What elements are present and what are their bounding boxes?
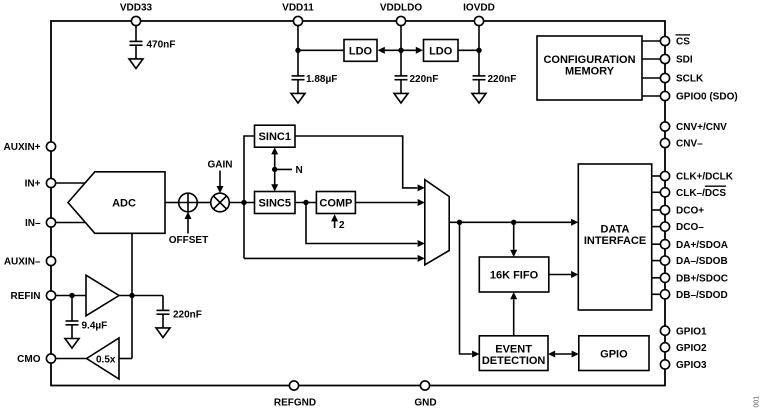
svg-text:OFFSET: OFFSET	[169, 235, 208, 246]
svg-text:MEMORY: MEMORY	[565, 66, 615, 78]
svg-text:CLK+/DCLK: CLK+/DCLK	[676, 172, 734, 183]
svg-text:CMO: CMO	[17, 354, 41, 365]
svg-text:220nF: 220nF	[410, 74, 439, 85]
svg-text:0.5x: 0.5x	[96, 354, 116, 365]
svg-text:SINC1: SINC1	[259, 131, 291, 143]
svg-text:CLK–/DCS: CLK–/DCS	[676, 188, 726, 199]
svg-text:001: 001	[754, 396, 760, 408]
svg-text:REFGND: REFGND	[274, 397, 316, 408]
svg-text:DCO–: DCO–	[676, 222, 704, 233]
svg-text:IOVDD: IOVDD	[463, 3, 495, 14]
svg-text:DA+/SDOA: DA+/SDOA	[676, 240, 728, 251]
svg-text:GPIO0 (SDO): GPIO0 (SDO)	[676, 92, 738, 103]
svg-text:CS: CS	[676, 37, 690, 48]
svg-text:CNV–: CNV–	[676, 139, 703, 150]
svg-text:CONFIGURATION: CONFIGURATION	[543, 54, 635, 66]
svg-text:LDO: LDO	[349, 45, 373, 57]
svg-text:GPIO1: GPIO1	[676, 326, 707, 337]
svg-text:AUXIN+: AUXIN+	[4, 142, 41, 153]
svg-text:GPIO: GPIO	[600, 348, 628, 360]
svg-text:2: 2	[339, 220, 345, 231]
svg-text:DETECTION: DETECTION	[482, 355, 546, 367]
svg-text:470nF: 470nF	[147, 39, 176, 50]
svg-text:GPIO3: GPIO3	[676, 360, 707, 371]
svg-text:INTERFACE: INTERFACE	[584, 235, 646, 247]
svg-text:CNV+/CNV: CNV+/CNV	[676, 122, 727, 133]
svg-text:IN–: IN–	[25, 218, 41, 229]
svg-text:N: N	[296, 165, 303, 176]
svg-text:VDD11: VDD11	[282, 3, 314, 14]
svg-text:9.4µF: 9.4µF	[82, 320, 108, 331]
svg-text:COMP: COMP	[319, 198, 352, 210]
svg-text:GAIN: GAIN	[208, 160, 233, 171]
svg-text:EVENT: EVENT	[495, 344, 532, 356]
svg-text:DCO+: DCO+	[676, 206, 704, 217]
svg-text:DA–/SDOB: DA–/SDOB	[676, 256, 728, 267]
svg-text:DB+/SDOC: DB+/SDOC	[676, 273, 728, 284]
svg-text:IN+: IN+	[25, 179, 41, 190]
svg-text:VDDLDO: VDDLDO	[380, 3, 422, 14]
svg-text:VDD33: VDD33	[120, 3, 153, 14]
svg-text:DB–/SDOD: DB–/SDOD	[676, 290, 728, 301]
svg-text:16K FIFO: 16K FIFO	[490, 270, 539, 282]
svg-text:ADC: ADC	[112, 198, 136, 210]
svg-text:GPIO2: GPIO2	[676, 343, 707, 354]
svg-text:220nF: 220nF	[488, 74, 517, 85]
svg-text:LDO: LDO	[429, 45, 453, 57]
svg-text:SCLK: SCLK	[676, 74, 704, 85]
svg-text:SDI: SDI	[676, 55, 693, 66]
svg-text:REFIN: REFIN	[11, 291, 41, 302]
svg-text:GND: GND	[414, 397, 436, 408]
svg-text:SINC5: SINC5	[259, 198, 291, 210]
svg-text:1.88µF: 1.88µF	[306, 74, 337, 85]
svg-text:DATA: DATA	[601, 224, 630, 236]
svg-text:AUXIN–: AUXIN–	[4, 257, 41, 268]
svg-text:220nF: 220nF	[173, 310, 202, 321]
